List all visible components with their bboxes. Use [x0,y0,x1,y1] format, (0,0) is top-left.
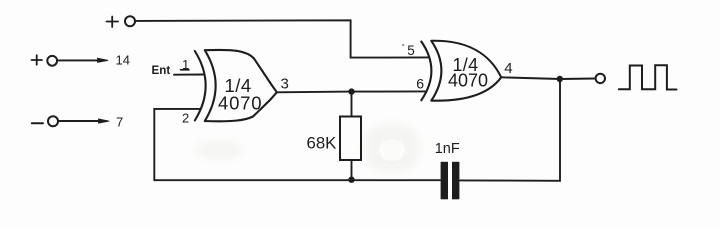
svg-text:4: 4 [504,60,512,77]
capacitor C1 1nF right plate [452,162,459,200]
pin label 4 [504,60,512,77]
wire top rail from V+ to pin 5 [135,20,429,57]
terminal V+ top circle [125,16,135,26]
gate2 label 4070 [448,70,488,90]
gate1 label 1/4 [225,75,252,96]
wire bottom rail right [460,82,560,181]
scan smudge under gate 1 [194,140,244,160]
svg-text:68K: 68K [307,134,337,153]
svg-text:5: 5 [407,43,415,58]
XOR gate U1 1/4 4070 input curve [195,51,206,121]
terminal -7 minus sign [32,122,43,124]
svg-text:2: 2 [182,110,189,125]
svg-text:1: 1 [182,57,189,72]
resistor R1 68K body [340,117,361,161]
terminal V+ top plus sign [107,17,119,28]
pin label 5 [407,43,415,58]
terminal +14 circle [47,56,57,66]
arrow to pin 7 [58,119,109,123]
junction node output [557,76,563,82]
capacitor C1 1nF left plate [441,162,448,200]
value label 68K [307,134,337,153]
label Ent [152,64,171,77]
gate2 label 1/4 [453,55,479,75]
gate1 label 4070 [218,93,262,114]
pin label 1 [182,57,189,72]
label 14 [116,52,130,67]
scan speck near pin 5 [402,44,404,46]
underline of pin label 1 [181,69,190,71]
value label 1nF [435,141,460,157]
XOR gate U2 1/4 4070 input curve [421,42,431,101]
svg-text:4070: 4070 [448,70,488,90]
svg-text:14: 14 [116,52,130,67]
svg-text:7: 7 [116,115,123,130]
label 7 [116,115,123,130]
XOR gate U1 1/4 4070 body [205,50,277,121]
pin label 6 [416,76,424,92]
svg-text:1nF: 1nF [435,141,460,157]
arrow to pin 14 [57,58,108,62]
pin label 2 [182,110,189,125]
wire gate2 output pin 4 to output terminal [501,77,595,79]
wire gate1 output pin 3 to gate2 pin 6 [277,90,427,93]
terminal +14 plus sign [32,55,43,65]
square wave output symbol [619,65,677,89]
junction node at resistor bottom [348,177,354,183]
svg-text:6: 6 [416,76,424,92]
XOR gate U2 1/4 4070 body [431,41,501,101]
wire input Ent to pin 1 [174,74,203,76]
terminal -7 circle [48,116,58,126]
output terminal circle [596,74,605,83]
pin label 3 [281,75,289,92]
svg-text:4070: 4070 [218,93,262,114]
wire bottom rail left [154,179,440,181]
svg-text:Ent: Ent [152,64,171,77]
resistor R1 68K leads [351,94,353,179]
wire pin 2 feedback branch [154,109,200,180]
junction node at resistor top [348,88,354,94]
svg-text:3: 3 [281,75,289,92]
scan smudge left of capacitor [363,122,421,174]
